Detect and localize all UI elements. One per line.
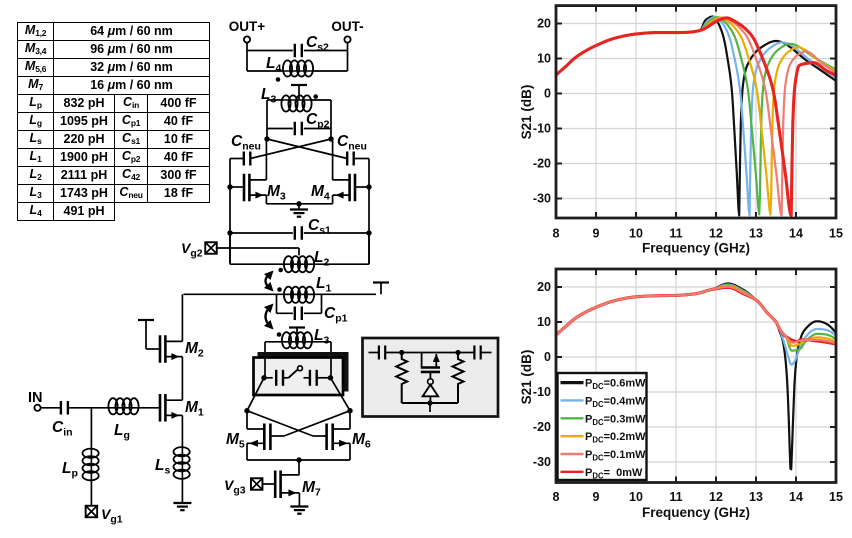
bot chart curve green xyxy=(556,285,836,351)
svg-text:Cin: Cin xyxy=(52,419,73,439)
top chart curve black xyxy=(556,17,836,216)
wire cap bank right xyxy=(317,377,331,379)
wire M6 drain to node xyxy=(349,411,351,429)
cross wire to M6 gate xyxy=(247,411,313,436)
wire M1 source down xyxy=(181,415,183,448)
wire M4 drain up xyxy=(332,139,334,180)
wire L3 bottom baseline left xyxy=(265,341,283,343)
wire M2 gate stub xyxy=(146,348,160,350)
polarity dot L4 xyxy=(276,77,281,82)
inset wire left xyxy=(369,352,379,354)
inset junction right xyxy=(455,350,460,355)
svg-text:L4: L4 xyxy=(266,55,281,75)
svg-text:L3: L3 xyxy=(261,86,276,106)
inductor L3 top xyxy=(283,99,311,101)
svg-text:M1: M1 xyxy=(185,399,204,419)
capacitor Cneu right xyxy=(346,152,348,166)
wire L4 right xyxy=(312,70,348,72)
cross wire A to right Cneu xyxy=(267,139,347,159)
svg-text:0: 0 xyxy=(544,350,551,364)
wire diagonal to M5 drain xyxy=(247,378,264,411)
junction source rail xyxy=(296,201,301,206)
wire to node A xyxy=(266,129,268,140)
svg-text:Cs2: Cs2 xyxy=(306,34,329,54)
capacitor Cin xyxy=(60,401,62,415)
wire into bank right (inside) xyxy=(330,358,332,378)
legend entry 0.3mW xyxy=(561,417,584,419)
svg-text:M2: M2 xyxy=(185,340,204,360)
capacitor bank cap 2 xyxy=(309,370,311,386)
svg-text:OUT+: OUT+ xyxy=(229,19,265,34)
svg-text:14: 14 xyxy=(789,227,803,241)
transistor M5 xyxy=(263,424,266,451)
bot chart frame xyxy=(556,269,836,483)
polarity dot L3 bottom xyxy=(277,332,282,337)
svg-text:L3: L3 xyxy=(314,327,329,347)
cross wire to M5 gate xyxy=(284,411,350,436)
wire Cp1 bottom left xyxy=(277,312,293,314)
wire L2 baseline left xyxy=(230,263,285,265)
svg-text:Frequency (GHz): Frequency (GHz) xyxy=(642,241,750,256)
wire L2 center tap xyxy=(298,248,300,255)
svg-text:Cp1: Cp1 xyxy=(324,305,348,325)
svg-text:Vg1: Vg1 xyxy=(101,506,123,526)
wire M6 gate xyxy=(313,435,327,437)
top chart grid xyxy=(595,7,597,217)
svg-text:M3: M3 xyxy=(267,183,286,203)
ground M7 xyxy=(290,505,308,507)
bot chart curve red xyxy=(556,287,836,344)
inset junction bottom xyxy=(427,400,432,405)
inductor Lg xyxy=(110,407,138,409)
svg-text:M6: M6 xyxy=(352,431,371,451)
svg-text:M5: M5 xyxy=(226,431,245,451)
bias terminal Vg3 xyxy=(251,478,263,490)
wire into cap bank left xyxy=(264,342,266,378)
svg-text:Vg3: Vg3 xyxy=(224,477,246,497)
wire right down to L2 xyxy=(368,233,370,264)
svg-text:20: 20 xyxy=(537,280,551,294)
top chart curve red xyxy=(556,18,836,215)
svg-text:15: 15 xyxy=(829,227,843,241)
wire right down to Cp2 xyxy=(330,100,332,129)
wire Cs1 left xyxy=(230,232,293,234)
wire M2 drain up xyxy=(181,294,183,341)
svg-text:M4: M4 xyxy=(311,183,330,203)
wire left down to Cp2 xyxy=(266,100,268,129)
svg-text:M7: M7 xyxy=(302,479,321,499)
capacitor Cs1 xyxy=(294,226,296,240)
junction M6 drain node xyxy=(347,408,352,413)
wire OUT- down xyxy=(347,43,349,71)
legend box xyxy=(558,373,647,480)
wire L4 left xyxy=(247,70,284,72)
terminal OUT- xyxy=(344,36,350,42)
legend entry 0.1mW xyxy=(561,453,584,455)
svg-text:L2: L2 xyxy=(314,249,329,269)
legend entry 0mW xyxy=(561,471,584,473)
wire Cp1 loop right xyxy=(321,294,323,313)
wire to ground xyxy=(298,204,300,210)
top chart curve salmon xyxy=(556,18,836,216)
wire Vg2 to L2 center tap xyxy=(217,247,299,249)
wire right gate rail xyxy=(368,159,370,265)
polarity dot L2 xyxy=(278,268,283,273)
inset transistor switch xyxy=(421,366,440,369)
wire switch to cap 2 xyxy=(304,377,310,379)
wire into cap bank right xyxy=(330,342,332,378)
coupling arrow L2-L1 xyxy=(266,274,271,289)
wire to node B xyxy=(330,129,332,140)
junction tail xyxy=(296,457,301,462)
wire OUT+ down xyxy=(246,43,248,71)
svg-text:20: 20 xyxy=(537,17,551,31)
capacitor Cp1 xyxy=(294,307,296,321)
supply tap T between L4 and L3 xyxy=(291,84,307,86)
wire Cneu right to gate rail xyxy=(354,158,369,160)
svg-text:10: 10 xyxy=(629,227,643,241)
junction Cs1 right xyxy=(366,230,371,235)
node A junction xyxy=(264,136,269,141)
svg-text:14: 14 xyxy=(789,490,803,504)
switch xyxy=(289,370,298,378)
svg-text:12: 12 xyxy=(709,490,723,504)
wire M3 drain up xyxy=(265,139,267,180)
svg-text:12: 12 xyxy=(709,227,723,241)
wire into bank left (inside) xyxy=(264,358,266,378)
top chart curve green xyxy=(556,17,836,214)
svg-text:Cs1: Cs1 xyxy=(308,217,331,237)
wire to switch xyxy=(283,377,289,379)
coupling arrow L1-L3 xyxy=(266,307,271,327)
wire M5 source down xyxy=(246,443,248,460)
wire L1 rail xyxy=(184,293,377,295)
svg-text:IN: IN xyxy=(28,390,43,406)
svg-text:-20: -20 xyxy=(533,157,551,171)
svg-text:8: 8 xyxy=(553,490,560,504)
svg-text:Cneu: Cneu xyxy=(231,133,261,153)
svg-text:15: 15 xyxy=(829,490,843,504)
wire left gate rail xyxy=(229,159,231,265)
inductor L4 xyxy=(284,70,312,72)
svg-text:Lp: Lp xyxy=(62,460,78,480)
transistor M2 xyxy=(159,335,162,363)
svg-text:8: 8 xyxy=(553,227,560,241)
wire M3 source down xyxy=(265,195,267,204)
svg-text:10: 10 xyxy=(537,315,551,329)
wire Cp1 loop left xyxy=(276,294,278,313)
ground Ls xyxy=(173,502,191,504)
wire left down to L2 xyxy=(229,233,231,264)
svg-text:-30: -30 xyxy=(533,455,551,469)
inset resistor right xyxy=(453,353,464,404)
wire Cp2 right xyxy=(304,128,331,130)
wire Cin to Lg xyxy=(68,407,110,409)
svg-text:OUT-: OUT- xyxy=(331,19,363,34)
svg-text:9: 9 xyxy=(593,490,600,504)
inset resistor left xyxy=(396,353,407,404)
junction M4 gate xyxy=(366,184,371,189)
wire M7 source down xyxy=(298,493,300,507)
svg-text:Frequency (GHz): Frequency (GHz) xyxy=(642,505,750,520)
capacitor Cp2 xyxy=(294,122,296,136)
inductor L2 xyxy=(285,263,313,265)
wire M7 gate xyxy=(263,483,276,485)
svg-text:13: 13 xyxy=(749,490,763,504)
svg-text:11: 11 xyxy=(669,490,682,504)
capacitor Cneu left xyxy=(243,152,245,166)
wire Cneu left to gate rail xyxy=(230,158,244,160)
wire M5 gate xyxy=(270,435,284,437)
svg-text:13: 13 xyxy=(749,227,763,241)
inset bottom rail xyxy=(402,402,458,404)
wire M6 source down xyxy=(349,443,351,460)
polarity dot L1 xyxy=(277,287,282,292)
svg-text:-10: -10 xyxy=(533,385,551,399)
inset control stub xyxy=(429,403,431,412)
supply T right of L1 xyxy=(373,281,389,283)
svg-text:Ls: Ls xyxy=(155,457,170,477)
wire L3 baseline left xyxy=(267,99,283,101)
junction M3 gate xyxy=(227,184,232,189)
transistor M3 xyxy=(243,174,246,202)
wire M3 gate xyxy=(230,186,244,188)
junction cap bank left xyxy=(261,375,266,380)
wire Lp to Vg1 xyxy=(90,480,92,506)
wire M2 source to M1 drain xyxy=(181,357,183,401)
bot chart curve blue xyxy=(556,285,836,365)
inductor L1 xyxy=(285,293,313,295)
switched capacitor bank box xyxy=(258,353,348,392)
node B junction xyxy=(328,136,333,141)
bot chart curve yellow xyxy=(556,286,836,346)
wire source rail xyxy=(266,203,332,205)
wire M5 drain to node xyxy=(246,411,248,429)
legend entry 0.6mW xyxy=(561,381,584,384)
inductor L3 bottom xyxy=(283,341,311,343)
terminal IN xyxy=(34,405,40,411)
svg-text:10: 10 xyxy=(629,490,643,504)
wire Cs2 left xyxy=(247,50,293,52)
bot chart curve salmon xyxy=(556,287,836,344)
transistor M4 xyxy=(354,174,357,202)
inset junction left xyxy=(399,350,404,355)
wire L2 baseline right xyxy=(313,263,369,265)
capacitor bank cap 1 xyxy=(275,370,277,386)
svg-text:Vg2: Vg2 xyxy=(181,240,203,260)
inset: switch detail box xyxy=(363,338,499,417)
junction cap bank right xyxy=(328,375,333,380)
wire L3 baseline right xyxy=(311,99,332,101)
svg-text:S21 (dB): S21 (dB) xyxy=(519,350,534,405)
bot chart curve black xyxy=(556,284,836,470)
top chart frame xyxy=(556,6,836,218)
inset capacitor left xyxy=(378,346,380,360)
capacitor Cs2 xyxy=(294,44,296,58)
svg-text:-10: -10 xyxy=(533,122,551,136)
wire Cp2 left xyxy=(267,128,293,130)
svg-text:S21 (dB): S21 (dB) xyxy=(519,85,534,140)
bias T M2 gate xyxy=(138,319,154,321)
wire Ls to ground xyxy=(181,478,183,503)
svg-text:9: 9 xyxy=(593,227,600,241)
inset wire middle xyxy=(385,352,474,354)
top chart curve blue xyxy=(556,17,836,215)
wire tail rail xyxy=(247,459,350,461)
legend entry 0.2mW xyxy=(561,435,584,437)
svg-text:Lg: Lg xyxy=(114,422,130,442)
junction Cs1 left xyxy=(227,230,232,235)
bias terminal Vg2 xyxy=(205,242,217,254)
svg-text:0: 0 xyxy=(544,87,551,101)
svg-text:L1: L1 xyxy=(316,275,331,295)
wire tail to M7 xyxy=(298,460,300,475)
svg-text:-20: -20 xyxy=(533,420,551,434)
inductor Ls xyxy=(181,448,183,478)
transistor M6 xyxy=(331,424,334,451)
inset inverter xyxy=(428,379,434,385)
junction M5 drain node xyxy=(244,408,249,413)
polarity dot L3 top xyxy=(313,94,318,99)
wire cap bank xyxy=(264,377,273,379)
wire Lg to M1 gate xyxy=(138,407,161,409)
wire Cs1 right xyxy=(304,232,369,234)
wire diagonal to M6 drain xyxy=(331,378,351,411)
wire M4 gate xyxy=(355,186,369,188)
inset capacitor right xyxy=(473,346,475,360)
transistor M1 xyxy=(159,394,162,422)
svg-text:-30: -30 xyxy=(533,192,551,206)
inductor Lp xyxy=(90,450,92,480)
svg-text:Cneu: Cneu xyxy=(337,133,367,153)
wire IN to Cin xyxy=(41,407,61,409)
bias terminal Vg1 xyxy=(86,506,98,518)
svg-text:Cp2: Cp2 xyxy=(306,111,330,131)
top chart curve yellow xyxy=(556,18,836,215)
terminal OUT+ xyxy=(244,36,250,42)
transistor M7 xyxy=(274,471,277,499)
legend entry 0.4mW xyxy=(561,399,584,401)
svg-text:10: 10 xyxy=(537,52,551,66)
supply tap T above L3 bottom xyxy=(289,326,305,328)
bot chart grid xyxy=(595,270,597,481)
svg-text:11: 11 xyxy=(669,227,682,241)
cross wire B to left Cneu xyxy=(250,139,331,159)
wire node to Lp xyxy=(90,408,92,450)
ground M3 M4 sources xyxy=(290,208,308,210)
wire L3 bottom baseline right xyxy=(311,341,331,343)
wire M4 source down xyxy=(332,195,334,204)
inset wire right xyxy=(481,352,492,354)
wire Cs2 right xyxy=(304,50,348,52)
wire Cp1 bottom right xyxy=(304,312,322,314)
